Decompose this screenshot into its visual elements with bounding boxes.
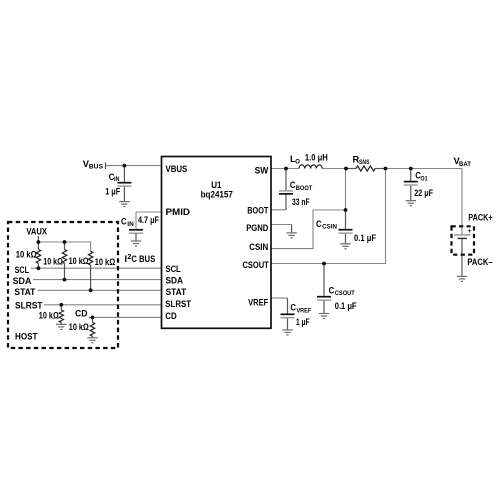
svg-text:O1: O1 [421, 176, 429, 182]
svg-text:BAT: BAT [459, 162, 471, 168]
svg-text:C: C [316, 219, 322, 229]
svg-text:10 kΩ: 10 kΩ [39, 311, 59, 321]
svg-text:STAT: STAT [14, 287, 35, 297]
svg-text:SCL: SCL [15, 265, 30, 275]
svg-text:+: + [468, 228, 472, 235]
svg-text:SLRST: SLRST [165, 299, 191, 309]
svg-text:10 kΩ: 10 kΩ [69, 322, 89, 332]
svg-text:BOOT: BOOT [296, 186, 313, 192]
svg-text:C: C [329, 285, 335, 295]
svg-text:PACK+: PACK+ [468, 213, 493, 223]
svg-text:33 nF: 33 nF [292, 197, 310, 207]
svg-text:BOOT: BOOT [247, 206, 268, 216]
svg-text:IN: IN [127, 222, 134, 228]
svg-text:BUS: BUS [89, 165, 103, 171]
svg-text:CD: CD [75, 308, 88, 318]
svg-text:0.1 μF: 0.1 μF [354, 233, 376, 243]
svg-text:SDA: SDA [13, 276, 32, 286]
svg-text:22 μF: 22 μF [414, 188, 433, 198]
svg-text:VREF: VREF [248, 298, 268, 308]
svg-text:0.1 μF: 0.1 μF [335, 301, 357, 311]
svg-text:10 kΩ: 10 kΩ [95, 257, 116, 267]
svg-text:PACK–: PACK– [467, 257, 492, 267]
svg-text:CSOUT: CSOUT [243, 260, 269, 270]
svg-text:SW: SW [255, 166, 269, 176]
svg-text:VAUX: VAUX [26, 227, 47, 237]
svg-text:4.7 μF: 4.7 μF [138, 215, 159, 225]
svg-text:10 kΩ: 10 kΩ [69, 256, 89, 266]
svg-text:C: C [290, 303, 296, 313]
svg-text:STAT: STAT [166, 287, 187, 297]
svg-text:10 kΩ: 10 kΩ [16, 249, 37, 259]
svg-text:IN: IN [114, 177, 120, 183]
svg-text:SCL: SCL [166, 264, 181, 274]
svg-text:PMID: PMID [166, 207, 191, 217]
svg-text:SDA: SDA [166, 276, 184, 286]
svg-text:C BUS: C BUS [131, 254, 155, 264]
svg-text:CSIN: CSIN [249, 242, 268, 252]
svg-text:CD: CD [165, 311, 177, 321]
svg-text:C: C [121, 217, 127, 227]
svg-text:PGND: PGND [246, 223, 268, 233]
svg-text:SLRST: SLRST [15, 300, 43, 310]
svg-text:SNS: SNS [359, 160, 370, 166]
svg-text:1.0 μH: 1.0 μH [305, 152, 328, 162]
svg-text:VREF: VREF [297, 308, 312, 314]
svg-text:VBUS: VBUS [166, 164, 188, 174]
svg-text:O: O [295, 160, 300, 166]
svg-text:bq24157: bq24157 [201, 189, 233, 199]
svg-text:HOST: HOST [15, 332, 38, 342]
svg-text:10 kΩ: 10 kΩ [43, 257, 63, 267]
svg-text:1 μF: 1 μF [296, 317, 310, 327]
svg-text:CSOUT: CSOUT [335, 291, 355, 297]
svg-text:CSIN: CSIN [322, 225, 337, 231]
svg-text:1 μF: 1 μF [105, 187, 120, 197]
